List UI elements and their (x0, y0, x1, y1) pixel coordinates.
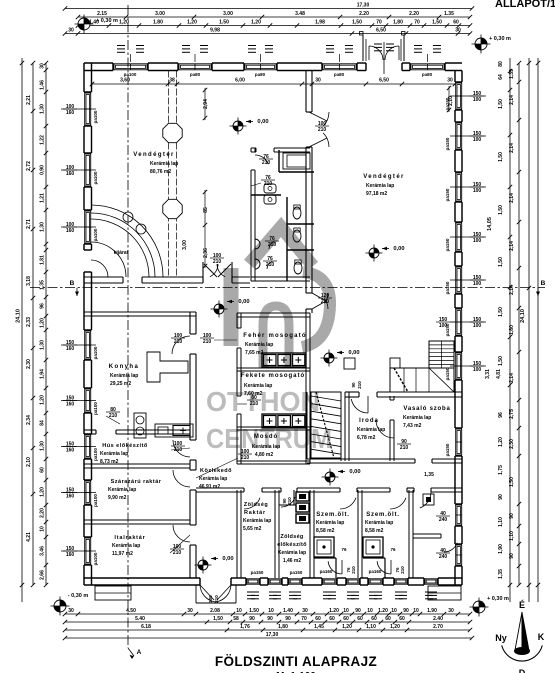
svg-text:100: 100 (473, 323, 482, 329)
fixture: kitchen cooker (134, 413, 146, 438)
svg-text:Kerámia lap: Kerámia lap (366, 183, 394, 189)
svg-text:1,50: 1,50 (498, 257, 504, 267)
wall: veg-store east x277 (274, 490, 276, 578)
svg-text:2.08: 2.08 (210, 608, 220, 614)
wall: veg closet partition (293, 490, 295, 505)
svg-text:É: É (519, 600, 525, 610)
svg-text:3.00: 3.00 (155, 11, 165, 17)
svg-text:1,45: 1,45 (314, 624, 324, 630)
svg-text:240: 240 (439, 517, 448, 523)
svg-text:pa100: pa100 (93, 110, 98, 123)
svg-text:1,20: 1,20 (40, 318, 46, 328)
svg-text:2.40: 2.40 (433, 616, 443, 622)
wall: dry-store/drink-store divider (84, 519, 190, 521)
windows: top wall glazing (114, 64, 147, 70)
column: octagonal pillar 2 (163, 199, 182, 218)
svg-text:76: 76 (390, 547, 396, 552)
dimension: hall interior verticals (204, 88, 206, 270)
svg-text:pa160: pa160 (369, 569, 382, 574)
dimension: interior line below top wall (92, 83, 455, 85)
svg-text:1,20: 1,20 (187, 20, 197, 26)
svg-text:100: 100 (473, 367, 482, 373)
svg-text:10: 10 (367, 608, 373, 614)
wall: dressing2 east x411 (408, 490, 410, 578)
svg-text:3,46: 3,46 (40, 546, 46, 556)
bottom dimension line 3 (65, 629, 470, 631)
svg-text:Szárazárú raktár: Szárazárú raktár (111, 479, 162, 485)
svg-text:1.40: 1.40 (283, 608, 293, 614)
svg-text:2,34: 2,34 (26, 415, 32, 425)
fixture: washbasin 1 (255, 239, 260, 249)
watermark: logo center arch (263, 306, 289, 368)
windows: top hatch marks (117, 45, 125, 47)
top dimension line 3 opening sizes (78, 25, 470, 27)
svg-text:90: 90 (355, 608, 361, 614)
svg-text:1.35: 1.35 (444, 11, 454, 17)
svg-text:210: 210 (351, 566, 356, 574)
svg-text:pa150: pa150 (445, 367, 450, 380)
svg-text:pa80: pa80 (422, 72, 433, 77)
svg-text:7,43 m2: 7,43 m2 (403, 423, 422, 429)
svg-text:1,75: 1,75 (498, 465, 504, 475)
svg-text:210: 210 (318, 127, 327, 133)
svg-text:10: 10 (40, 526, 46, 532)
svg-text:1,50: 1,50 (509, 477, 515, 487)
wall: office block south y462 (307, 458, 415, 460)
svg-text:Kerámia lap: Kerámia lap (316, 520, 344, 526)
svg-text:90: 90 (249, 616, 255, 622)
svg-text:210: 210 (250, 401, 259, 407)
svg-text:30: 30 (68, 608, 74, 614)
svg-text:Kerámia lap: Kerámia lap (403, 415, 431, 421)
svg-text:pa150: pa150 (445, 238, 450, 251)
svg-text:210: 210 (173, 550, 182, 556)
svg-text:pa160: pa160 (320, 569, 333, 574)
svg-text:60: 60 (329, 616, 335, 622)
right dimension chain E (528, 58, 530, 602)
svg-text:8,58 m2: 8,58 m2 (316, 528, 335, 534)
wall: east utility divider y536 (413, 533, 441, 535)
svg-text:90: 90 (285, 616, 291, 622)
svg-text:1.80: 1.80 (153, 20, 163, 26)
svg-text:pa100: pa100 (93, 402, 98, 415)
svg-text:240: 240 (439, 554, 448, 560)
stair: diagonal (429, 368, 454, 392)
svg-text:0,00: 0,00 (222, 556, 233, 562)
svg-text:+ 0,30 m: + 0,30 m (96, 18, 118, 24)
windows: bottom wall glazing (247, 579, 259, 584)
svg-text:160: 160 (66, 346, 75, 352)
svg-text:2,20: 2,20 (40, 508, 46, 518)
wall: office west x347 (344, 392, 346, 461)
svg-text:1,50: 1,50 (498, 99, 504, 109)
wall: meat-prep/dry-store divider (84, 463, 190, 465)
svg-text:30: 30 (447, 78, 453, 84)
porch: bottom-right steps (428, 586, 461, 600)
svg-text:3,00: 3,00 (182, 240, 188, 250)
svg-text:Mosdó: Mosdó (254, 434, 278, 440)
svg-text:3.48: 3.48 (295, 11, 305, 17)
svg-text:1,30: 1,30 (40, 441, 46, 451)
svg-text:Kerámia lap: Kerámia lap (112, 543, 140, 549)
door: drink-store swing (173, 525, 190, 542)
svg-text:0,90: 0,90 (40, 165, 46, 175)
svg-text:1,50: 1,50 (498, 356, 504, 366)
door: utility north swing (420, 492, 431, 508)
svg-text:1,50: 1,50 (432, 20, 442, 26)
svg-text:Kerámia lap: Kerámia lap (245, 342, 273, 348)
fixture: washbasin 2 (255, 259, 260, 269)
svg-text:Szem.ölt.: Szem.ölt. (316, 512, 350, 518)
svg-text:1,10: 1,10 (498, 517, 504, 527)
svg-text:+ 0,30 m: + 0,30 m (489, 36, 511, 42)
svg-text:3,60: 3,60 (120, 78, 130, 84)
top dimension line 4 outer 30/9,98/6,50/30 (65, 33, 470, 35)
door: konyha door swing (172, 336, 190, 354)
fixture: post circles (123, 212, 133, 222)
svg-text:1,50: 1,50 (498, 205, 504, 215)
svg-text:1,20: 1,20 (498, 437, 504, 447)
svg-text:210: 210 (214, 595, 219, 603)
level marker 0,00 corridor south (198, 560, 208, 570)
svg-text:1,20: 1,20 (40, 487, 46, 497)
level marker 0,00 stair hall (324, 353, 334, 363)
level marker +0,30 top-right (475, 38, 487, 50)
svg-text:1.20: 1.20 (329, 608, 339, 614)
section line A-A vertical (127, 5, 129, 648)
svg-text:46,91 m2: 46,91 m2 (199, 484, 220, 490)
svg-text:D: D (519, 668, 526, 673)
svg-text:0,00: 0,00 (238, 299, 249, 305)
bottom dimension line 4 overall 17,30 (65, 637, 472, 639)
door: office entry (351, 399, 368, 413)
svg-text:10: 10 (391, 608, 397, 614)
stair: upper treads (429, 344, 454, 346)
svg-text:0,00: 0,00 (393, 246, 404, 252)
svg-text:10: 10 (343, 608, 349, 614)
svg-text:2,21: 2,21 (26, 95, 32, 105)
svg-text:Kerámia lap: Kerámia lap (108, 487, 136, 493)
svg-text:10: 10 (413, 608, 419, 614)
wall: kitchen top y314 (84, 311, 196, 313)
svg-text:2,33: 2,33 (26, 317, 32, 327)
door: dry-store swing (173, 470, 190, 487)
fixture: urinal 2 (264, 195, 276, 204)
svg-text:Kerámia lap: Kerámia lap (278, 550, 306, 556)
svg-text:1,35: 1,35 (498, 569, 504, 579)
wall: under-stair y394 (345, 391, 359, 393)
door: veg-prep swing (281, 497, 295, 507)
svg-text:60: 60 (385, 616, 391, 622)
svg-text:pa150: pa150 (445, 443, 450, 456)
svg-text:2,14: 2,14 (509, 143, 515, 153)
svg-text:Fekete mosogató: Fekete mosogató (241, 373, 305, 379)
svg-text:pa100: pa100 (93, 228, 98, 241)
svg-text:210: 210 (241, 455, 250, 461)
svg-text:0,00: 0,00 (348, 350, 359, 356)
svg-text:4,80 m2: 4,80 m2 (255, 452, 274, 458)
svg-text:85: 85 (203, 207, 209, 213)
svg-text:Raktár: Raktár (244, 510, 266, 516)
svg-text:pa100: pa100 (93, 494, 98, 507)
svg-text:1,20: 1,20 (119, 20, 129, 26)
svg-text:Kerámia lap: Kerámia lap (110, 373, 138, 379)
svg-text:60: 60 (343, 616, 349, 622)
svg-text:3,31: 3,31 (485, 369, 491, 379)
wall: lower banquet hall divider y279 (84, 276, 123, 278)
wall: corridor west x193 (189, 312, 191, 334)
svg-text:1,39: 1,39 (509, 69, 515, 79)
svg-text:30: 30 (187, 608, 193, 614)
svg-text:4,21: 4,21 (26, 532, 32, 542)
stair: walking line (394, 368, 408, 392)
svg-text:17,30: 17,30 (266, 632, 279, 638)
svg-text:10: 10 (268, 608, 274, 614)
svg-text:pa80: pa80 (334, 72, 345, 77)
stair: newel square (390, 358, 400, 368)
svg-text:210: 210 (357, 381, 362, 389)
svg-text:210: 210 (321, 299, 330, 305)
svg-text:210: 210 (213, 259, 222, 265)
svg-text:Kerámia lap: Kerámia lap (150, 161, 178, 167)
door: WC entry (255, 155, 268, 164)
fixture: kitchen island (147, 352, 188, 382)
svg-text:2.20: 2.20 (359, 11, 369, 17)
column: octagonal pillar 1 (163, 123, 182, 142)
svg-text:Zöldség: Zöldség (244, 502, 269, 508)
fixture: kitchen counter (155, 424, 193, 437)
fixture: shower 2 (363, 537, 383, 557)
wall: dressing1 vestibule (314, 557, 336, 559)
svg-text:97,18 m2: 97,18 m2 (366, 191, 387, 197)
svg-text:60: 60 (40, 467, 46, 473)
stair: lower treads (403, 368, 405, 392)
svg-text:1,30: 1,30 (40, 340, 46, 350)
svg-text:24,10: 24,10 (520, 309, 526, 323)
level marker 0,00 hall east (369, 248, 379, 258)
svg-text:10: 10 (236, 608, 242, 614)
fixture: toilet 2 (293, 230, 301, 242)
wall: WC block outline (250, 148, 252, 152)
section line B-B horizontal (30, 287, 545, 289)
svg-text:ÁLLAPOT/1: ÁLLAPOT/1 (495, 0, 555, 10)
svg-text:60: 60 (357, 616, 363, 622)
svg-text:Italraktár: Italraktár (114, 535, 145, 541)
svg-text:60: 60 (315, 616, 321, 622)
svg-text:160: 160 (66, 552, 75, 558)
svg-text:80,76 m2: 80,76 m2 (150, 169, 171, 175)
svg-text:160: 160 (66, 448, 75, 454)
wall: office/ironing divider x392 (389, 396, 391, 400)
right outer line (537, 58, 539, 602)
wall: kitchen/meat-prep divider (84, 429, 96, 431)
svg-text:Hús előkészítő: Hús előkészítő (102, 443, 148, 449)
svg-text:64: 64 (498, 74, 504, 80)
svg-text:Kerámia lap: Kerámia lap (243, 518, 271, 524)
bottom dimension line 2 (65, 621, 470, 623)
svg-text:14,05: 14,05 (487, 217, 493, 231)
svg-text:1,30: 1,30 (40, 222, 46, 232)
svg-text:30: 30 (68, 28, 74, 34)
svg-text:1,50: 1,50 (352, 20, 362, 26)
svg-text:Vendégtér: Vendégtér (133, 152, 175, 158)
porch: bottom-left steps (95, 586, 131, 600)
svg-text:B: B (70, 280, 75, 287)
windows: left wall glazing (85, 93, 91, 125)
svg-text:OTTHON: OTTHON (206, 386, 320, 417)
svg-text:1,20: 1,20 (40, 395, 46, 405)
wall: stair block west x309 (306, 392, 308, 459)
svg-text:60: 60 (399, 616, 405, 622)
left dimension chain B (45, 63, 47, 585)
stair: main stair outline (390, 368, 454, 392)
svg-text:Kerámia lap: Kerámia lap (252, 444, 280, 450)
svg-text:2,75: 2,75 (509, 409, 515, 419)
svg-text:5,65 m2: 5,65 m2 (243, 526, 262, 532)
svg-text:6.18: 6.18 (141, 624, 151, 630)
right dimension chain D (518, 63, 520, 585)
svg-text:160: 160 (66, 402, 75, 408)
fixture: hall square mark (344, 358, 355, 369)
svg-text:24,10: 24,10 (16, 309, 22, 323)
svg-text:90: 90 (351, 382, 356, 388)
svg-text:70: 70 (414, 20, 420, 26)
svg-text:90: 90 (509, 513, 515, 519)
fixture: utility equipment (423, 494, 434, 505)
svg-text:7,60 m2: 7,60 m2 (244, 391, 263, 397)
svg-text:pa100: pa100 (124, 72, 137, 77)
wall: WC stall divider 1 (287, 223, 314, 225)
svg-text:7,65 m2: 7,65 m2 (245, 350, 264, 356)
svg-text:A: A (137, 649, 142, 656)
svg-text:B: B (541, 280, 546, 287)
svg-text:Kerámia lap: Kerámia lap (244, 383, 272, 389)
wall: dressing2 vestibule (363, 557, 385, 559)
level marker 0,00 hall west (233, 121, 243, 131)
svg-text:100: 100 (473, 281, 482, 287)
svg-text:2.70: 2.70 (433, 624, 443, 630)
svg-text:2,94: 2,94 (203, 99, 209, 109)
svg-text:210: 210 (400, 445, 409, 451)
svg-text:2,14: 2,14 (509, 241, 515, 251)
svg-text:58: 58 (233, 616, 239, 622)
svg-text:1.20: 1.20 (378, 608, 388, 614)
svg-text:2,36: 2,36 (203, 248, 209, 258)
door: ironing entry (376, 420, 394, 438)
door: vestibule2 swing (377, 561, 391, 574)
svg-text:1,80: 1,80 (278, 624, 288, 630)
svg-text:1,22: 1,22 (40, 135, 46, 145)
wall: stair-flight west x343 (340, 392, 342, 461)
svg-text:1.50: 1.50 (249, 608, 259, 614)
svg-text:2.15: 2.15 (97, 11, 107, 17)
svg-text:pa150: pa150 (251, 570, 264, 575)
svg-text:FÖLDSZINTI ALAPRAJZ: FÖLDSZINTI ALAPRAJZ (215, 654, 377, 669)
svg-text:pa100: pa100 (93, 448, 98, 461)
svg-text:2,10: 2,10 (26, 457, 32, 467)
svg-text:pa150: pa150 (290, 570, 303, 575)
wall: bottom rooms north y490 (196, 487, 244, 489)
svg-text:2,14: 2,14 (509, 193, 515, 203)
level marker -0,30 bottom-left (54, 600, 66, 612)
svg-text:9,98: 9,98 (210, 28, 220, 34)
svg-text:160: 160 (66, 494, 75, 500)
fixture: white dishwash sinks (262, 353, 306, 367)
svg-text:3,18: 3,18 (26, 276, 32, 286)
svg-text:1,46 m2: 1,46 m2 (283, 558, 302, 564)
svg-text:70: 70 (376, 20, 382, 26)
compass: north needle (502, 645, 543, 661)
bottom dimension line 1 (65, 613, 470, 615)
svg-text:Iroda: Iroda (359, 418, 379, 424)
wall: dressing divider x360 (357, 490, 359, 578)
svg-text:Közlekedő: Közlekedő (200, 468, 232, 474)
svg-text:210: 210 (262, 160, 271, 166)
svg-text:1,81: 1,81 (40, 255, 46, 265)
svg-text:100: 100 (473, 137, 482, 143)
fixture: toilet 1 (293, 207, 301, 219)
svg-text:+ 0,30 m: + 0,30 m (487, 596, 509, 602)
svg-text:Zöldség: Zöldség (280, 534, 303, 540)
fixture: shower 1 (314, 537, 334, 557)
svg-text:Kerámia lap: Kerámia lap (100, 451, 128, 457)
level marker 0,00 corridor north (214, 304, 224, 314)
svg-text:90: 90 (267, 616, 273, 622)
door: meat-prep swing (173, 440, 190, 457)
svg-text:1,20: 1,20 (390, 624, 400, 630)
svg-text:Ny: Ny (495, 633, 507, 643)
svg-text:Kerámia lap: Kerámia lap (357, 427, 385, 433)
svg-text:90: 90 (498, 494, 504, 500)
svg-text:90: 90 (509, 553, 515, 559)
porch: entry side walls (362, 35, 364, 61)
svg-text:1,35: 1,35 (424, 472, 434, 478)
right dimension 14,05 (509, 58, 511, 602)
svg-text:17,30: 17,30 (357, 3, 370, 9)
svg-text:pa100: pa100 (93, 346, 98, 359)
svg-text:5.40: 5.40 (135, 616, 145, 622)
svg-text:160: 160 (66, 228, 75, 234)
svg-text:100: 100 (439, 323, 448, 329)
door: hall double door upper (309, 112, 327, 121)
svg-text:210: 210 (203, 339, 212, 345)
svg-text:0,00: 0,00 (349, 469, 360, 475)
svg-text:8,58 m2: 8,58 m2 (365, 528, 384, 534)
fixture: WC sink counter (283, 153, 310, 169)
door: vestibule1 swing (328, 561, 342, 574)
wall: left exterior (83, 63, 85, 92)
svg-text:pa80: pa80 (255, 72, 266, 77)
wall: veg-store west x239 (236, 490, 238, 578)
svg-text:8,73 m2: 8,73 m2 (100, 459, 119, 465)
top dimension line 2 axis spacings (78, 16, 470, 18)
svg-text:96: 96 (498, 412, 504, 418)
svg-text:pa80: pa80 (190, 72, 201, 77)
svg-text:1,46: 1,46 (40, 80, 46, 90)
svg-text:1,20: 1,20 (342, 624, 352, 630)
stair: down flight (311, 392, 341, 458)
left dimension chain A (32, 63, 34, 585)
door: bottom exit double leaf (200, 585, 216, 602)
svg-text:1,76: 1,76 (240, 624, 250, 630)
wall: bottom exterior (84, 577, 200, 579)
svg-text:1,10: 1,10 (509, 531, 515, 541)
svg-text:30: 30 (40, 63, 46, 69)
level marker +0,30 bottom-right (473, 601, 485, 613)
svg-text:96: 96 (40, 303, 46, 309)
svg-text:84: 84 (40, 420, 46, 426)
svg-text:Vasaló szoba: Vasaló szoba (403, 406, 450, 412)
